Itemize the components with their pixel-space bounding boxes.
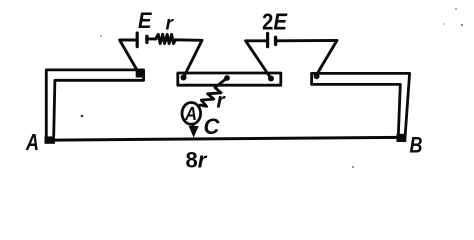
arrowhead at node C <box>189 126 199 138</box>
speckle noise dots (scan artifacts) <box>81 115 84 118</box>
svg-text:8r: 8r <box>186 147 208 172</box>
svg-text:A: A <box>184 104 197 124</box>
busbar middle <box>178 73 281 85</box>
svg-text:2E: 2E <box>262 8 288 34</box>
node A terminal square <box>45 136 55 143</box>
busbar right (thick L-bar) <box>312 73 410 138</box>
svg-text:A: A <box>25 129 39 155</box>
wire battery to resistor <box>148 37 156 40</box>
node J1 on left busbar <box>136 70 143 77</box>
busbar left (thick L-bar) <box>46 70 143 137</box>
ammeter A1 circle <box>182 103 201 125</box>
node J4 on right busbar <box>314 73 320 79</box>
wire resistor to right corner + leg down <box>176 40 202 78</box>
svg-text:B: B <box>410 132 423 157</box>
svg-text:E: E <box>138 8 153 33</box>
resistor r (middle zigzag) <box>200 78 227 106</box>
battery E long plate <box>136 33 139 47</box>
wire ammeter to C <box>192 124 194 128</box>
wire battery to right corner + leg down <box>277 40 337 75</box>
node J2 on middle busbar (left) <box>181 75 187 81</box>
node B terminal square <box>397 134 407 142</box>
svg-text:r: r <box>217 89 227 112</box>
svg-text:r: r <box>166 14 175 35</box>
wire bottom AB (8r) <box>54 137 399 140</box>
battery 2E short plate <box>274 37 277 44</box>
resistor r (left loop zigzag) <box>156 34 176 43</box>
wire right loop: leg to corner + stub to battery <box>246 41 271 79</box>
node J5 middle tap on middle busbar <box>224 75 230 81</box>
svg-text:C: C <box>204 114 221 139</box>
node J3 on middle busbar (right) <box>268 76 274 82</box>
battery 2E long plate <box>266 33 269 46</box>
battery E short plate <box>145 36 148 42</box>
wire left loop: leg to corner + stub to battery <box>120 40 139 74</box>
